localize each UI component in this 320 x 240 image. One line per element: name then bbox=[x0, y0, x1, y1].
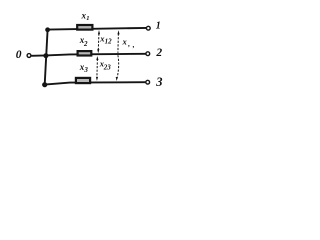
svg-text:2: 2 bbox=[155, 47, 162, 59]
svg-text:2: 2 bbox=[83, 40, 88, 48]
svg-text:23: 23 bbox=[103, 63, 112, 71]
svg-text:1: 1 bbox=[156, 20, 161, 31]
svg-text:0: 0 bbox=[16, 49, 22, 61]
svg-text:,: , bbox=[132, 40, 135, 49]
svg-text:3: 3 bbox=[83, 66, 88, 74]
svg-text:3: 3 bbox=[155, 75, 162, 89]
svg-text:12: 12 bbox=[105, 38, 113, 46]
svg-text:,: , bbox=[127, 39, 130, 48]
svg-text:x: x bbox=[122, 36, 128, 46]
svg-text:1: 1 bbox=[86, 15, 89, 22]
